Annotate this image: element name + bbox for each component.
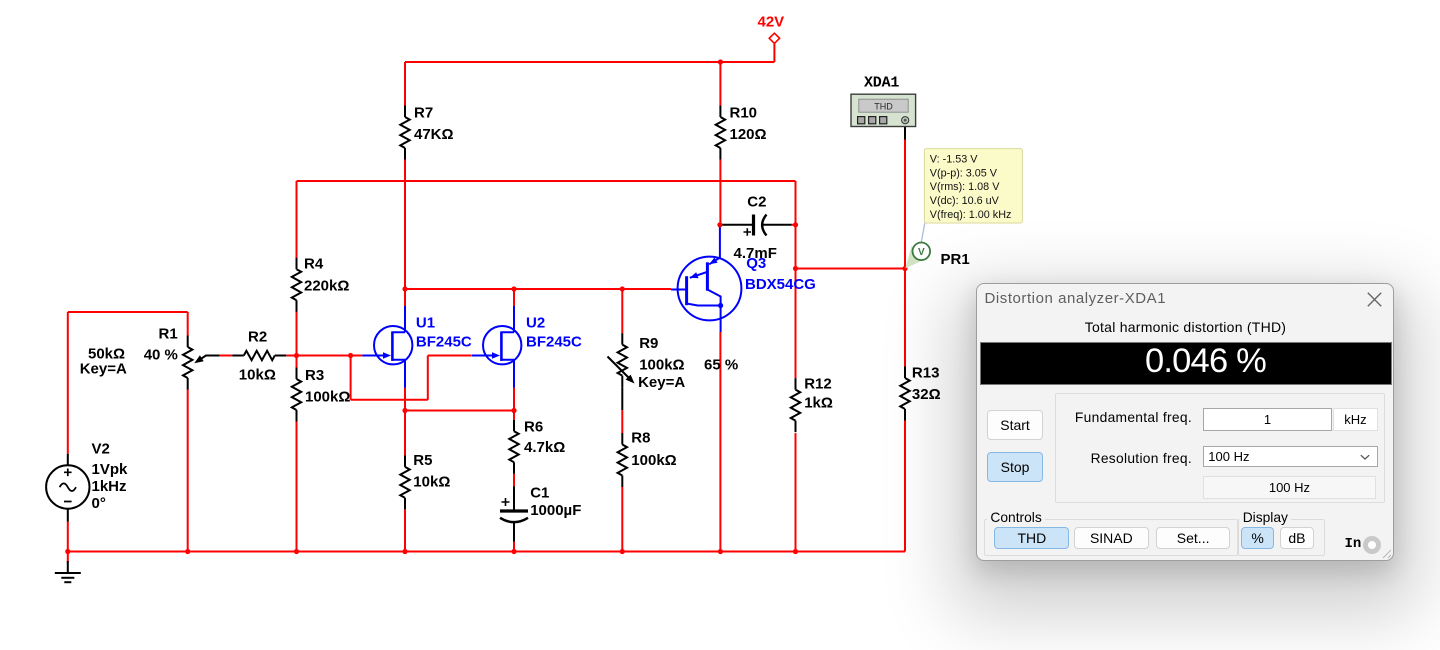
svg-text:40 %: 40 % (144, 347, 178, 364)
svg-text:V(dc): 10.6 uV: V(dc): 10.6 uV (930, 195, 1000, 207)
resize grip (1381, 548, 1393, 560)
Set button (1156, 527, 1230, 549)
wire: R10 bottom to C2 node (719, 160, 721, 225)
wire: R4 top (296, 181, 298, 258)
svg-text:V(p-p): 3.05 V: V(p-p): 3.05 V (930, 167, 998, 179)
In LED (1363, 536, 1381, 554)
frequency group box (1055, 393, 1385, 503)
wire: source join U1-U2 (405, 410, 514, 412)
svg-text:C1: C1 (530, 485, 549, 502)
svg-text:47KΩ: 47KΩ (414, 126, 454, 143)
wire: U1 source down (404, 388, 406, 411)
Fundamental freq label (977, 410, 1193, 425)
wire: wiper to R2 (219, 355, 232, 357)
capacitor C2 (722, 215, 792, 236)
wire: V2 to R1 top horizontal (68, 311, 188, 313)
svg-text:32Ω: 32Ω (912, 386, 941, 403)
svg-text:R9: R9 (639, 335, 658, 352)
wire: V2 plus lead up (67, 312, 69, 454)
wire: R7 top (404, 62, 406, 106)
THD heading (977, 319, 1395, 335)
wire: Q3 collector down to rail (719, 332, 721, 552)
svg-text:XDA1: XDA1 (864, 74, 899, 91)
title bar (985, 290, 1167, 307)
svg-text:R2: R2 (248, 329, 267, 346)
wire: drain rail to Q3 base (405, 288, 671, 290)
resistor R5 (400, 455, 409, 509)
svg-text:V2: V2 (92, 440, 110, 457)
wire: R9 to R8 (621, 410, 623, 433)
probe PR1 (905, 223, 930, 268)
svg-text:BDX54CG: BDX54CG (745, 276, 816, 293)
wire: ground stub (67, 552, 69, 563)
SINAD button (1074, 527, 1149, 549)
svg-text:R3: R3 (305, 367, 324, 384)
transistor U2 (471, 306, 521, 388)
source V2 (46, 454, 89, 522)
svg-text:42V: 42V (758, 14, 785, 31)
wire: R6 to C1 (513, 474, 515, 487)
dialog: Distortion analyzer-XDA1 (976, 283, 1394, 561)
wire: XDA1 drop (904, 138, 906, 269)
svg-text:BF245C: BF245C (526, 333, 582, 350)
wire: XDA1 terminal lead (904, 125, 906, 140)
svg-text:0°: 0° (92, 495, 106, 512)
Display group box (1238, 519, 1325, 556)
svg-text:PR1: PR1 (941, 251, 970, 268)
svg-text:U1: U1 (416, 315, 435, 332)
power 42V (769, 33, 779, 43)
svg-text:100kΩ: 100kΩ (631, 452, 676, 469)
wire: R5 bottom to rail (404, 510, 406, 552)
resistor R8 (618, 433, 627, 487)
capacitor C1 (500, 486, 528, 541)
resistor R7 (400, 106, 409, 160)
resistor R4 (292, 258, 301, 312)
transistor U1 (362, 306, 412, 388)
svg-text:Q3: Q3 (746, 255, 766, 272)
potentiometer R9 (608, 333, 630, 410)
wire: U2 source down (513, 388, 515, 411)
svg-text:120Ω: 120Ω (730, 126, 767, 143)
svg-text:V: V (918, 247, 925, 258)
wire: R13 bottom (904, 421, 906, 552)
svg-text:100kΩ: 100kΩ (639, 357, 684, 374)
transistor Q3 (671, 225, 741, 332)
wire: U2 drain up (513, 289, 515, 306)
svg-text:V(freq): 1.00 kHz: V(freq): 1.00 kHz (930, 209, 1012, 221)
svg-text:R12: R12 (804, 376, 832, 393)
wire: 42V supply stub (773, 44, 775, 63)
wire: V2 minus lead down (67, 522, 69, 552)
kHz box (1333, 408, 1378, 430)
resistor R3 (292, 368, 301, 422)
Start button (987, 410, 1042, 440)
wire: R9 top (621, 289, 623, 333)
svg-text:R1: R1 (159, 326, 178, 343)
svg-text:4.7kΩ: 4.7kΩ (524, 439, 565, 456)
wire: gate net drop (350, 356, 352, 400)
THD numeric display (980, 342, 1392, 385)
instrument XDA1 (851, 74, 916, 126)
wire: R1 bottom to rail (187, 389, 189, 552)
Resolution freq label (977, 451, 1193, 466)
svg-text:R8: R8 (631, 430, 650, 447)
wire: R6 top (513, 411, 515, 420)
wire: gate net to U2 (428, 355, 471, 357)
svg-text:R6: R6 (524, 418, 543, 435)
svg-text:U2: U2 (526, 315, 545, 332)
wire: R2 to U1 gate (286, 355, 362, 357)
wire: right vertical net (795, 181, 797, 378)
Fundamental freq input (1203, 408, 1331, 430)
svg-text:100kΩ: 100kΩ (305, 389, 350, 406)
svg-text:1000µF: 1000µF (530, 502, 581, 519)
svg-text:1kHz: 1kHz (92, 478, 127, 495)
close button (1367, 292, 1382, 307)
svg-text:R5: R5 (413, 452, 432, 469)
resistor R12 (791, 378, 800, 432)
percent button (1241, 527, 1274, 549)
wire: top rail 42V (405, 61, 774, 63)
svg-text:R4: R4 (304, 256, 324, 273)
Resolution dropdown (1203, 446, 1377, 467)
wire: output node horizontal (796, 268, 906, 270)
Controls group box (984, 519, 1238, 556)
wire: R8 bottom to rail (621, 487, 623, 552)
svg-text:1Vpk: 1Vpk (92, 461, 129, 478)
wire: C2 right to node (792, 224, 796, 226)
resistor R2 (232, 351, 286, 360)
svg-text:Key=A: Key=A (80, 361, 127, 378)
svg-text:220kΩ: 220kΩ (304, 278, 349, 295)
resistor R10 (716, 106, 725, 160)
wire: gate net underpass (351, 399, 428, 401)
Resolution result box (1203, 476, 1375, 499)
svg-text:BF245C: BF245C (416, 333, 472, 350)
svg-text:V(rms): 1.08 V: V(rms): 1.08 V (930, 181, 1000, 193)
svg-text:V: -1.53 V: V: -1.53 V (930, 153, 978, 165)
potentiometer R1 (183, 336, 219, 390)
wire: R13 top (904, 269, 906, 367)
svg-text:10kΩ: 10kΩ (239, 367, 276, 384)
wire: R1 top (187, 312, 189, 336)
wire: R4 bottom to R3 top (296, 312, 298, 368)
node PR1 measurement box (924, 149, 1022, 223)
dB button (1280, 527, 1314, 549)
THD button (994, 527, 1069, 549)
wire: R10 top (719, 62, 721, 106)
svg-text:10kΩ: 10kΩ (413, 473, 450, 490)
resistor R13 (900, 367, 909, 421)
svg-text:C2: C2 (747, 193, 766, 210)
wire: R4/C2-right horizontal net (297, 180, 796, 182)
ground (55, 561, 81, 582)
svg-text:THD: THD (874, 102, 893, 112)
svg-text:R7: R7 (414, 105, 433, 122)
wire: R7 bottom to U1 drain (404, 160, 406, 307)
wire: R3 bottom to ground rail (296, 422, 298, 552)
resistor R6 (509, 420, 518, 474)
svg-text:65 %: 65 % (704, 357, 738, 374)
wire: ground rail (68, 551, 905, 553)
svg-text:1kΩ: 1kΩ (804, 395, 833, 412)
svg-text:Key=A: Key=A (638, 374, 685, 391)
svg-text:R13: R13 (912, 365, 940, 382)
Stop button (987, 452, 1042, 483)
svg-text:R10: R10 (730, 105, 758, 122)
wire: gate net rise (427, 356, 429, 400)
wire: R12 bottom to rail (795, 433, 797, 551)
wire: R5 top (404, 411, 406, 456)
wire: C1 bottom to rail (513, 542, 515, 552)
In label (1345, 536, 1362, 552)
